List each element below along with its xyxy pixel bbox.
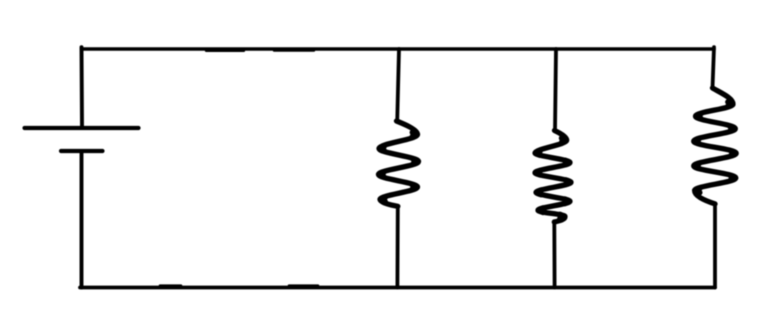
wire R2 bottom stub — [552, 222, 556, 288]
battery V1 short plate (-) — [61, 149, 103, 153]
wire right vertical lower (R3 to bottom wire) — [713, 204, 717, 288]
wire R1 bottom stub — [395, 206, 399, 288]
wire bottom overlap strokes — [160, 284, 318, 287]
wire top overlap strokes — [206, 49, 314, 52]
wire R1 top stub — [397, 49, 399, 122]
wire left vertical upper (top wire to battery) — [80, 47, 84, 126]
wire right vertical upper (top wire to R3) — [713, 47, 715, 88]
resistor R1 coil — [379, 121, 419, 206]
wire R2 top stub — [555, 49, 556, 131]
resistor R3 coil — [694, 88, 737, 204]
wire top horizontal — [82, 47, 715, 51]
wire left vertical lower (battery to bottom wire) — [80, 152, 84, 288]
resistor R2 coil — [535, 131, 571, 223]
wire bottom horizontal — [80, 286, 715, 290]
battery V1 long plate (+) — [25, 126, 139, 130]
